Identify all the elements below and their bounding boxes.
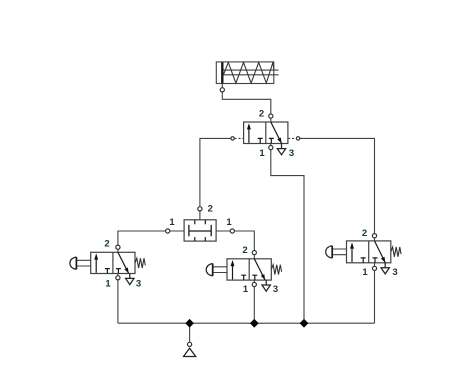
junction dot bus V3	[250, 319, 259, 328]
V1 right cell flow path 2 to 3 with arrow	[271, 122, 282, 143]
V4 left cell blocked port	[361, 258, 366, 263]
valve V3 3/2-way push-button middle	[206, 245, 281, 295]
V4 right cell flow path with arrow	[375, 241, 386, 263]
valve V1 3/2-way pneumatically piloted	[234, 108, 296, 159]
two-pressure valve (AND) V5	[169, 203, 232, 241]
V3 right cell flow path with arrow	[254, 259, 265, 280]
junction dot bus source	[185, 319, 194, 328]
node air source	[188, 342, 192, 346]
node AND right port 1	[230, 229, 234, 233]
valve V2 3/2-way push-button left	[70, 239, 145, 290]
AND valve shuttle	[189, 225, 211, 236]
V4 exhaust triangle port 3	[381, 263, 389, 274]
svg-text:3: 3	[136, 279, 141, 290]
cylinder piston	[221, 62, 223, 83]
svg-text:2: 2	[208, 203, 213, 214]
V1 right cell blocked port 1	[269, 138, 274, 143]
node cylinder port	[220, 88, 224, 92]
node AND left port 1	[166, 229, 170, 233]
wire V2 port 2 up-right to AND valve left port 1	[118, 231, 184, 252]
svg-text:2: 2	[362, 228, 367, 239]
svg-text:1: 1	[362, 267, 368, 278]
node V1 port 2	[269, 114, 273, 118]
V2 right cell blocked port 1	[116, 269, 121, 274]
AND valve seats	[195, 220, 206, 241]
wire V1 port 1 down-right to bottom bus	[271, 144, 304, 324]
V2 push button actuator	[76, 260, 91, 266]
wire air source stub	[189, 323, 191, 342]
V1 left cell flow arrow	[248, 128, 250, 143]
node V1 left pilot	[231, 137, 234, 140]
V3 exhaust triangle port 3	[262, 280, 270, 291]
V4 push button actuator	[332, 249, 347, 255]
V1 left pilot stub	[234, 137, 243, 139]
wire cylinder port to valve V1 port 2	[222, 84, 270, 123]
V4 left cell flow arrow	[351, 247, 353, 262]
V2 left cell flow arrow	[95, 258, 97, 273]
wire V2 port 1 down to bus	[117, 274, 119, 324]
wire AND-valve output 2 up to V1 left pilot	[200, 138, 233, 219]
V2 exhaust triangle port 3	[126, 274, 134, 285]
node V2 port 2	[116, 245, 120, 249]
V3 right cell blocked port 1	[252, 275, 257, 280]
svg-text:3: 3	[289, 148, 294, 159]
V3 left cell flow arrow	[232, 264, 234, 279]
wire AND valve right port 1 to V3 port 2	[216, 231, 254, 259]
node V2 port 1	[116, 276, 120, 280]
wire V3 port 1 down to bus	[253, 280, 255, 323]
svg-text:3: 3	[273, 284, 278, 295]
V1 left cell blocked port	[258, 138, 263, 143]
node V1 port 1	[269, 146, 273, 150]
V2 left cell blocked port	[105, 269, 110, 274]
V4 right cell blocked port 1	[373, 258, 378, 263]
wire V4 port 1 down to bus	[374, 263, 376, 323]
V3 left cell blocked port	[241, 275, 246, 280]
junction dot bus V1 return	[300, 319, 309, 328]
svg-text:1: 1	[105, 279, 111, 290]
svg-text:1: 1	[226, 217, 232, 228]
svg-text:1: 1	[243, 284, 249, 295]
compressed air source	[184, 348, 196, 356]
V3 return spring	[271, 265, 281, 275]
V2 right cell flow path with arrow	[118, 252, 129, 273]
node V4 port 1	[372, 266, 376, 270]
node V4 port 2	[372, 234, 376, 238]
V2 return spring	[135, 258, 145, 268]
valve V4 3/2-way push-button right	[326, 228, 401, 278]
node V1 right pilot	[296, 137, 299, 140]
cylinder return spring	[224, 62, 274, 83]
svg-text:3: 3	[392, 267, 397, 278]
svg-text:1: 1	[169, 217, 175, 228]
node AND output 2	[198, 207, 202, 211]
V1 right pilot stub	[288, 137, 296, 139]
svg-text:2: 2	[259, 108, 264, 119]
svg-text:1: 1	[259, 148, 265, 159]
svg-text:2: 2	[242, 245, 247, 256]
V3 push button actuator	[213, 267, 228, 273]
cylinder A1 single-acting spring return	[216, 62, 278, 84]
svg-text:2: 2	[104, 239, 109, 250]
wire bottom supply bus	[118, 322, 375, 324]
node V3 port 2	[252, 251, 256, 255]
wire V1 right pilot to V4 port 2	[298, 138, 374, 241]
V4 return spring	[391, 247, 401, 257]
cylinder piston rod	[224, 69, 279, 71]
node V3 port 1	[252, 282, 256, 286]
V1 exhaust triangle port 3	[277, 144, 285, 155]
